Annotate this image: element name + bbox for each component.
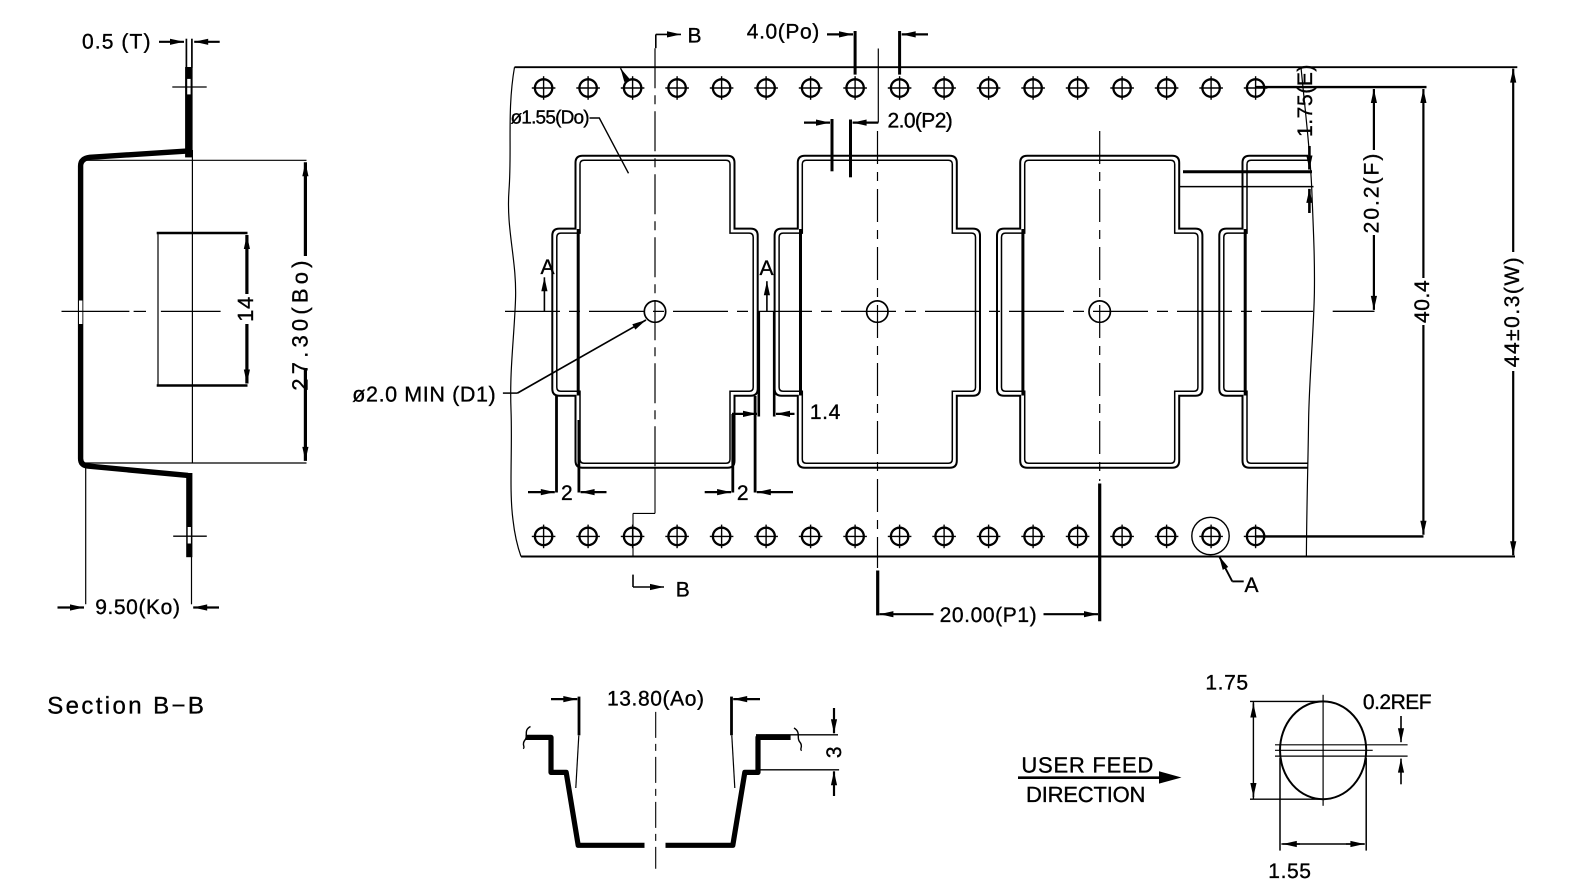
svg-text:B: B	[688, 24, 703, 47]
tape bottom edge	[521, 556, 1515, 558]
dimension 1.75 detail	[1250, 700, 1323, 702]
section A-A centerline	[655, 712, 657, 869]
dimension 20.2(F)	[1373, 89, 1375, 150]
svg-text:13.80(Ao): 13.80(Ao)	[607, 687, 705, 710]
left view tape profile (Section B-B)	[81, 151, 191, 476]
svg-text:44±0.3(W): 44±0.3(W)	[1501, 256, 1524, 367]
sprocket hole rows	[532, 76, 556, 100]
dimension 2 right	[731, 414, 734, 493]
marked sprocket hole A	[1192, 517, 1229, 554]
dimension 1.4 gap	[757, 312, 760, 417]
svg-text:0.5 (T): 0.5 (T)	[82, 31, 152, 54]
left break wavy line	[508, 67, 521, 556]
pocket 2 vertical centerline	[877, 131, 879, 568]
pocket 3 outline	[997, 156, 1202, 468]
top strip double line (tape thickness T)	[185, 39, 187, 68]
dimension 2 left	[555, 396, 558, 493]
tape top edge	[515, 66, 1518, 68]
section A marker 1	[543, 277, 545, 311]
marked hole A leader	[1219, 556, 1232, 581]
svg-text:2.0(P2): 2.0(P2)	[888, 109, 953, 132]
dimension 3 depth	[756, 734, 838, 736]
dimension 13.80(Ao)	[578, 697, 581, 736]
svg-text:0.2REF: 0.2REF	[1363, 691, 1431, 714]
component cavity rectangle	[157, 233, 159, 386]
pocket 1 center hole D1	[644, 301, 665, 322]
section B marker bottom	[632, 575, 634, 587]
section A marker 2	[766, 281, 768, 312]
dimension 40.4	[1422, 89, 1424, 278]
svg-text:2: 2	[561, 482, 573, 505]
dimension 1.55 detail	[1279, 758, 1281, 851]
bottom strip	[186, 473, 192, 557]
white notch in bottom	[645, 842, 666, 849]
svg-text:Section B−B: Section B−B	[47, 693, 206, 720]
section B cut jog line bottom	[654, 468, 656, 514]
inner wall thin lines	[576, 736, 579, 789]
horizontal pocket centerline	[505, 310, 1313, 312]
white slot on wall at centerline	[79, 301, 82, 325]
pocket 2 center hole D1	[867, 301, 888, 322]
svg-text:B: B	[676, 579, 691, 602]
dimension 1.75(E)	[1183, 170, 1312, 173]
right break wavy line	[1301, 67, 1314, 556]
dimension 9.50(Ko)	[85, 468, 87, 604]
svg-text:1.75: 1.75	[1205, 671, 1248, 694]
horizontal centerline left view	[62, 310, 221, 312]
small edge arrow	[621, 68, 627, 79]
svg-text:DIRECTION: DIRECTION	[1026, 782, 1145, 807]
break squiggle right	[794, 728, 802, 751]
svg-text:2: 2	[737, 482, 749, 505]
svg-text:9.50(Ko): 9.50(Ko)	[95, 596, 180, 619]
sprocket hole detail	[1280, 701, 1366, 799]
pocket 1 outline	[552, 156, 757, 468]
svg-text:1.55: 1.55	[1268, 860, 1311, 883]
svg-text:20.2(F): 20.2(F)	[1360, 152, 1383, 234]
top sprocket hole crosshair	[172, 86, 206, 88]
svg-text:3: 3	[823, 746, 846, 758]
svg-text:ø1.55(Do): ø1.55(Do)	[511, 107, 590, 128]
dimension 27.30(Bo)	[84, 159, 307, 161]
pocket 1 vertical centerline	[654, 48, 656, 468]
pocket 2 outline	[775, 156, 980, 468]
svg-text:A: A	[541, 256, 556, 279]
section plane vertical thin line	[191, 150, 193, 463]
dimension 44+-0.3(W)	[1512, 69, 1514, 252]
svg-text:14: 14	[233, 296, 258, 322]
svg-text:4.0(Po): 4.0(Po)	[747, 21, 820, 44]
svg-text:A: A	[760, 257, 775, 280]
section A-A pocket profile	[526, 737, 791, 845]
svg-text:40.4: 40.4	[1411, 280, 1434, 323]
pocket 3 center hole D1	[1089, 301, 1110, 322]
dimension 14 cavity	[245, 235, 248, 294]
svg-text:USER FEED: USER FEED	[1021, 752, 1154, 777]
dimension 4.0(Po)	[854, 31, 857, 75]
svg-text:1.4: 1.4	[810, 401, 841, 424]
svg-text:1.75(E): 1.75(E)	[1294, 64, 1317, 137]
hole center extension lines	[1256, 86, 1427, 88]
pocket 4 outline	[1219, 156, 1424, 468]
section B marker top	[655, 34, 657, 48]
pocket 3 vertical centerline	[1099, 131, 1101, 481]
svg-text:A: A	[1245, 574, 1260, 597]
svg-text:27.30(Bo): 27.30(Bo)	[288, 256, 313, 390]
bottom sprocket hole crosshair	[173, 535, 207, 537]
svg-text:20.00(P1): 20.00(P1)	[940, 604, 1038, 627]
svg-text:ø2.0 MIN (D1): ø2.0 MIN (D1)	[352, 383, 496, 407]
dimension 20.00(P1)	[876, 571, 879, 616]
dimension 2.0(P2)	[831, 119, 834, 171]
break squiggle left	[523, 727, 531, 749]
